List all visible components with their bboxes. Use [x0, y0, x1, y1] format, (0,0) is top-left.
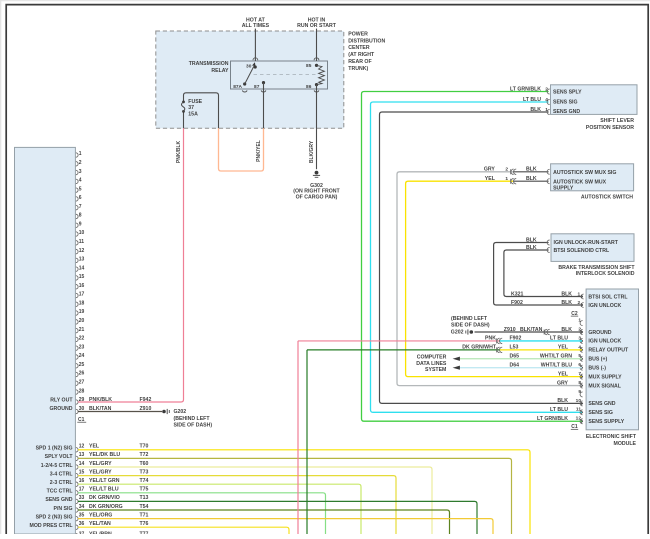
svg-text:PNK/YEL: PNK/YEL [256, 140, 262, 162]
svg-text:BUS (+): BUS (+) [588, 357, 607, 363]
svg-text:YEL/DK BLU: YEL/DK BLU [89, 452, 120, 458]
svg-text:BLK/TAN: BLK/TAN [89, 406, 112, 412]
svg-text:LT GRN/BLK: LT GRN/BLK [537, 416, 568, 422]
svg-text:1: 1 [79, 151, 82, 157]
svg-text:T74: T74 [140, 478, 149, 484]
svg-text:D65: D65 [510, 354, 520, 360]
svg-text:Z910: Z910 [504, 327, 516, 333]
svg-text:37: 37 [188, 105, 194, 111]
svg-text:BLK: BLK [526, 176, 537, 182]
svg-text:9: 9 [79, 221, 82, 227]
svg-text:RUN OR START: RUN OR START [297, 23, 337, 29]
svg-text:F902: F902 [511, 300, 523, 306]
svg-text:2: 2 [505, 167, 508, 173]
svg-text:BLK: BLK [561, 300, 572, 306]
svg-text:MUX SIGNAL: MUX SIGNAL [588, 383, 621, 389]
svg-text:12: 12 [79, 444, 85, 450]
svg-text:3-4 CTRL: 3-4 CTRL [50, 471, 74, 477]
svg-text:BRAKE TRANSMISSION SHIFT: BRAKE TRANSMISSION SHIFT [558, 265, 635, 271]
svg-text:13: 13 [79, 452, 85, 458]
svg-text:16: 16 [79, 478, 85, 484]
svg-text:T13: T13 [140, 495, 149, 501]
svg-text:G202: G202 [174, 409, 187, 415]
svg-text:LT BLU: LT BLU [550, 336, 568, 342]
svg-text:BLK: BLK [526, 237, 537, 243]
svg-text:RELAY: RELAY [211, 68, 229, 74]
svg-text:2: 2 [545, 86, 548, 92]
svg-text:PNK: PNK [485, 336, 496, 342]
svg-text:WHT/LT GRN: WHT/LT GRN [540, 354, 572, 360]
svg-text:YEL/LT GRN: YEL/LT GRN [89, 478, 120, 484]
svg-text:21: 21 [79, 327, 85, 333]
svg-text:18: 18 [79, 300, 85, 306]
svg-text:3: 3 [79, 169, 82, 175]
svg-text:MODULE: MODULE [614, 441, 637, 447]
svg-text:SENS SUPPLY: SENS SUPPLY [588, 419, 624, 425]
svg-text:2: 2 [79, 160, 82, 166]
svg-text:SIDE OF DASH): SIDE OF DASH) [174, 423, 213, 429]
svg-text:BTSI SOLENOID CTRL: BTSI SOLENOID CTRL [554, 248, 610, 254]
svg-text:AUTOSTICK SW MUX SIG: AUTOSTICK SW MUX SIG [553, 170, 616, 176]
svg-text:DK GRN/VIO: DK GRN/VIO [89, 495, 120, 501]
svg-text:P/N SIG: P/N SIG [53, 506, 72, 512]
svg-text:6: 6 [79, 195, 82, 201]
svg-text:8: 8 [79, 213, 82, 219]
svg-text:YEL/LT BLU: YEL/LT BLU [89, 487, 119, 493]
svg-text:BLK: BLK [526, 167, 537, 173]
svg-text:SENS SPLY: SENS SPLY [553, 90, 582, 96]
svg-text:RLY OUT: RLY OUT [50, 397, 73, 403]
svg-text:11: 11 [79, 239, 85, 245]
svg-text:23: 23 [79, 344, 85, 350]
svg-text:36: 36 [79, 521, 85, 527]
svg-text:LT GRN/BLK: LT GRN/BLK [510, 86, 541, 92]
svg-text:SYSTEM: SYSTEM [425, 367, 446, 373]
svg-text:YEL/TAN: YEL/TAN [89, 521, 111, 527]
svg-text:16: 16 [79, 283, 85, 289]
svg-text:LT BLU: LT BLU [550, 407, 568, 413]
svg-text:GROUND: GROUND [49, 406, 72, 412]
svg-text:8: 8 [578, 380, 581, 386]
svg-text:SPD 1 (N2) SIG: SPD 1 (N2) SIG [36, 446, 73, 452]
svg-text:SENS SIG: SENS SIG [553, 100, 578, 106]
svg-text:20: 20 [79, 318, 85, 324]
svg-text:CENTER: CENTER [348, 45, 370, 51]
svg-text:WHT/LT BLU: WHT/LT BLU [541, 363, 573, 369]
svg-text:T75: T75 [140, 487, 149, 493]
svg-text:(BEHIND LEFT: (BEHIND LEFT [451, 316, 488, 322]
svg-text:BLK: BLK [561, 291, 572, 297]
svg-text:MOD PRES CTRL: MOD PRES CTRL [30, 523, 74, 529]
svg-text:SPLY VOLT: SPLY VOLT [45, 454, 74, 460]
svg-text:19: 19 [79, 309, 85, 315]
svg-text:15: 15 [79, 274, 85, 280]
svg-text:YEL: YEL [485, 176, 496, 182]
svg-text:15A: 15A [188, 112, 198, 118]
svg-text:(AT RIGHT: (AT RIGHT [348, 52, 375, 58]
svg-text:BTSI SOL CTRL: BTSI SOL CTRL [588, 294, 628, 300]
svg-text:4: 4 [545, 97, 548, 103]
svg-text:MUX SUPPLY: MUX SUPPLY [588, 374, 622, 380]
svg-text:SENS GND: SENS GND [588, 401, 615, 407]
svg-text:IGN UNLOCK-RUN-START: IGN UNLOCK-RUN-START [554, 240, 619, 246]
svg-text:SENS SIG: SENS SIG [588, 410, 613, 416]
svg-text:1: 1 [505, 176, 508, 182]
svg-text:T76: T76 [140, 521, 149, 527]
svg-text:COMPUTER: COMPUTER [417, 355, 447, 361]
svg-text:F902: F902 [510, 336, 522, 342]
svg-text:26: 26 [79, 371, 85, 377]
svg-text:SPD 2 (N3) SIG: SPD 2 (N3) SIG [36, 514, 73, 520]
svg-text:F942: F942 [140, 397, 152, 403]
svg-text:SENS GND: SENS GND [45, 497, 72, 503]
svg-text:2-3 CTRL: 2-3 CTRL [50, 480, 74, 486]
svg-text:86: 86 [306, 84, 312, 90]
svg-text:24: 24 [79, 353, 85, 359]
svg-text:YEL: YEL [558, 345, 569, 351]
svg-text:T70: T70 [140, 444, 149, 450]
svg-text:DK GRN/WHT: DK GRN/WHT [462, 345, 497, 351]
svg-text:35: 35 [79, 512, 85, 518]
svg-text:AUTOSTICK SWITCH: AUTOSTICK SWITCH [581, 195, 633, 201]
svg-text:14: 14 [79, 461, 85, 467]
svg-text:10: 10 [79, 230, 85, 236]
svg-text:ALL TIMES: ALL TIMES [242, 23, 270, 29]
svg-text:FUSE: FUSE [188, 99, 202, 105]
svg-text:14: 14 [79, 265, 85, 271]
svg-text:DK GRN/ORG: DK GRN/ORG [89, 504, 123, 510]
svg-text:7: 7 [578, 371, 581, 377]
svg-text:T72: T72 [140, 452, 149, 458]
svg-text:T60: T60 [140, 461, 149, 467]
svg-text:87A: 87A [233, 84, 242, 90]
svg-text:12: 12 [79, 248, 85, 254]
svg-text:BLK: BLK [557, 398, 568, 404]
svg-text:33: 33 [79, 495, 85, 501]
svg-text:87: 87 [254, 84, 260, 90]
svg-text:T73: T73 [140, 469, 149, 475]
svg-text:13: 13 [79, 257, 85, 263]
svg-text:17: 17 [79, 487, 85, 493]
svg-text:DISTRIBUTION: DISTRIBUTION [348, 38, 385, 44]
svg-text:L53: L53 [510, 345, 519, 351]
svg-text:1: 1 [578, 317, 581, 323]
svg-text:2: 2 [578, 300, 581, 306]
svg-text:TRANSMISSION: TRANSMISSION [189, 61, 229, 67]
svg-text:INTERLOCK SOLENOID: INTERLOCK SOLENOID [576, 271, 635, 277]
svg-text:GROUND: GROUND [588, 330, 611, 336]
svg-text:YEL/GRY: YEL/GRY [89, 461, 112, 467]
svg-text:TRUNK): TRUNK) [348, 66, 368, 72]
svg-text:PNK/BLK: PNK/BLK [176, 141, 182, 164]
svg-text:15: 15 [79, 469, 85, 475]
svg-text:BLK: BLK [526, 245, 537, 251]
svg-text:K321: K321 [511, 291, 524, 297]
svg-text:22: 22 [79, 336, 85, 342]
svg-text:RELAY OUTPUT: RELAY OUTPUT [588, 348, 629, 354]
svg-text:1: 1 [578, 292, 581, 298]
svg-text:TCC CTRL: TCC CTRL [47, 489, 74, 495]
svg-text:1: 1 [545, 107, 548, 113]
svg-text:T71: T71 [140, 512, 149, 518]
svg-text:GRY: GRY [557, 380, 569, 386]
svg-text:17: 17 [79, 292, 85, 298]
svg-text:POWER: POWER [348, 31, 368, 37]
svg-text:1-2/4-5 CTRL: 1-2/4-5 CTRL [41, 463, 74, 469]
svg-text:BLK/GRY: BLK/GRY [309, 140, 315, 163]
svg-text:LT BLU: LT BLU [523, 97, 541, 103]
svg-text:SUPPLY: SUPPLY [553, 185, 574, 191]
svg-text:PNK/BLK: PNK/BLK [89, 397, 112, 403]
svg-text:AUTOSTICK SW MUX: AUTOSTICK SW MUX [553, 179, 606, 185]
svg-text:IGN UNLOCK: IGN UNLOCK [588, 339, 621, 345]
svg-text:SHIFT LEVER: SHIFT LEVER [600, 118, 634, 124]
svg-text:28: 28 [79, 388, 85, 394]
svg-text:30: 30 [246, 63, 252, 69]
svg-text:ELECTRONIC SHIFT: ELECTRONIC SHIFT [586, 434, 637, 440]
svg-text:(BEHIND LEFT: (BEHIND LEFT [174, 416, 211, 422]
svg-text:YEL: YEL [89, 444, 100, 450]
svg-text:11: 11 [576, 407, 581, 413]
svg-text:IGN UNLOCK: IGN UNLOCK [588, 303, 621, 309]
svg-text:OF CARGO PAN): OF CARGO PAN) [296, 194, 338, 200]
svg-text:YEL/GRY: YEL/GRY [89, 469, 112, 475]
svg-text:REAR OF: REAR OF [348, 59, 371, 65]
svg-text:27: 27 [79, 379, 85, 385]
svg-text:BLK: BLK [561, 327, 572, 333]
svg-text:YEL/ORG: YEL/ORG [89, 512, 112, 518]
svg-text:G202: G202 [451, 330, 464, 336]
svg-text:10: 10 [576, 398, 582, 404]
svg-text:25: 25 [79, 362, 85, 368]
svg-text:T54: T54 [140, 504, 149, 510]
svg-text:12: 12 [576, 416, 582, 422]
svg-text:9: 9 [578, 389, 581, 395]
svg-text:Z910: Z910 [140, 406, 152, 412]
svg-text:BLK/TAN: BLK/TAN [520, 327, 543, 333]
svg-text:BLK: BLK [530, 107, 541, 113]
svg-text:7: 7 [79, 204, 82, 210]
svg-text:POSITION SENSOR: POSITION SENSOR [586, 125, 634, 131]
svg-text:D64: D64 [510, 363, 520, 369]
svg-text:4: 4 [79, 178, 82, 184]
svg-text:34: 34 [79, 504, 85, 510]
svg-text:85: 85 [306, 63, 312, 69]
svg-text:SIDE OF DASH): SIDE OF DASH) [451, 322, 490, 328]
svg-text:BUS (-): BUS (-) [588, 366, 606, 372]
svg-text:YEL: YEL [558, 371, 569, 377]
svg-text:GRY: GRY [484, 167, 496, 173]
svg-text:SENS GND: SENS GND [553, 109, 580, 115]
svg-text:5: 5 [79, 186, 82, 192]
